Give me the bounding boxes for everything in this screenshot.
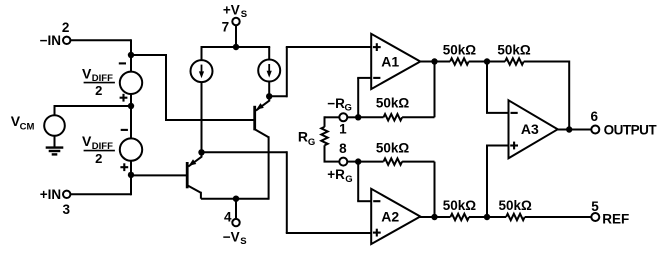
op-amp A1 <box>371 34 420 89</box>
svg-text:A2: A2 <box>381 208 399 224</box>
svg-text:A3: A3 <box>521 121 539 137</box>
wire -RG to RG resistor <box>325 116 340 127</box>
node A3 minus junction <box>484 58 490 64</box>
ground <box>46 136 64 155</box>
svg-text:G: G <box>345 174 352 185</box>
resistor 50k top first <box>435 58 488 64</box>
wire +RG to node <box>347 161 358 163</box>
wire A1 output <box>419 61 434 63</box>
wire +IN branch to Q2 base <box>131 174 187 176</box>
label 50k bottom first <box>443 198 477 213</box>
wire +IN to chain <box>70 193 131 195</box>
source VDIFF/2 upper <box>120 72 142 94</box>
source VCM <box>44 105 65 136</box>
node -RG <box>355 114 361 120</box>
wire A3 feedback <box>568 61 570 130</box>
svg-text:2: 2 <box>62 20 70 35</box>
label 50k top first <box>443 43 477 58</box>
label 50k A1 feedback <box>376 95 410 110</box>
wire I1 to Q2 emitter node <box>201 82 203 152</box>
svg-text:2: 2 <box>95 83 102 98</box>
node junction VCM <box>128 103 134 109</box>
node A3 output <box>566 126 572 132</box>
wire Q2 emitter to route <box>202 151 287 153</box>
svg-text:7: 7 <box>222 20 230 35</box>
wire junction to A3 minus <box>486 62 509 113</box>
svg-text:50kΩ: 50kΩ <box>376 140 410 155</box>
svg-text:2: 2 <box>95 151 102 166</box>
wire route to A1 plus <box>286 47 371 97</box>
terminal -RG pin 1 <box>327 96 352 136</box>
svg-text:G: G <box>345 103 352 114</box>
terminal -VS pin 4 <box>224 210 240 227</box>
wire to REF terminal <box>525 216 592 218</box>
svg-text:S: S <box>240 236 246 247</box>
svg-text:50kΩ: 50kΩ <box>499 198 533 213</box>
label VCM <box>11 113 35 133</box>
svg-text:−R: −R <box>327 96 345 111</box>
wire route to A2 plus <box>286 151 371 233</box>
resistor 50k top second <box>487 58 569 64</box>
wire feedback to A1 output <box>434 62 436 118</box>
svg-text:8: 8 <box>339 141 347 156</box>
label 50k top second <box>497 43 531 58</box>
svg-text:5: 5 <box>591 199 599 214</box>
wire -IN branch to Q1 base <box>131 54 255 120</box>
current source I1 <box>191 47 213 82</box>
node junction -IN branch <box>128 52 134 58</box>
resistor 50k A1 feedback <box>358 114 434 120</box>
transistor Q2 <box>187 152 202 198</box>
svg-text:A1: A1 <box>381 53 399 69</box>
node +VS rail junction <box>233 44 239 50</box>
source VDIFF/2 lower <box>120 138 142 160</box>
wire VCM to chain <box>54 105 132 107</box>
label RG <box>298 129 315 149</box>
label +VS <box>223 2 247 20</box>
svg-text:OUTPUT: OUTPUT <box>604 123 658 138</box>
plus sign upper source <box>120 94 128 102</box>
terminal OUTPUT pin 6 <box>590 109 657 138</box>
svg-text:+V: +V <box>223 2 240 17</box>
svg-text:3: 3 <box>63 202 71 217</box>
label 50k bottom second <box>499 198 533 213</box>
node -VS junction <box>233 196 239 202</box>
wire -IN to node chain <box>70 39 131 71</box>
label -VS <box>223 230 247 248</box>
wire feedback to A2 output <box>434 162 436 217</box>
svg-text:REF: REF <box>602 211 629 226</box>
wire node to A1 minus <box>357 78 371 117</box>
wire A2 output <box>419 216 434 218</box>
svg-text:50kΩ: 50kΩ <box>376 95 410 110</box>
minus sign upper source <box>119 62 126 64</box>
node Q2 emitter <box>198 149 204 155</box>
svg-text:1: 1 <box>339 121 347 136</box>
svg-text:6: 6 <box>590 109 598 124</box>
terminal +RG pin 8 <box>327 141 352 185</box>
svg-text:50kΩ: 50kΩ <box>497 43 531 58</box>
plus sign lower source <box>120 163 128 171</box>
node Q1 emitter <box>266 93 272 99</box>
transistor Q1 <box>255 96 270 199</box>
node junction +IN branch <box>128 172 134 178</box>
wire node to A2 minus <box>357 162 371 202</box>
wire collectors to -VS rail <box>201 198 269 200</box>
wire junction to A3 plus <box>486 146 509 218</box>
resistor 50k bottom first <box>435 214 488 220</box>
label VDIFF/2 upper <box>82 65 115 98</box>
svg-text:V: V <box>82 133 92 149</box>
svg-text:+IN: +IN <box>40 187 61 202</box>
minus sign lower source <box>121 129 128 131</box>
terminal -IN pin 2 <box>40 20 71 48</box>
svg-text:G: G <box>308 137 315 148</box>
resistor 50k bottom second <box>487 214 525 220</box>
current source I2 <box>258 47 280 82</box>
svg-text:−IN: −IN <box>40 33 61 48</box>
wire A3 output <box>557 129 592 131</box>
svg-text:V: V <box>82 65 92 81</box>
label 50k A2 feedback <box>376 140 410 155</box>
svg-text:50kΩ: 50kΩ <box>443 198 477 213</box>
resistor 50k A2 feedback <box>358 158 434 164</box>
wire to -VS terminal <box>235 199 237 219</box>
node +RG <box>355 158 361 164</box>
wire -RG to node <box>347 116 358 118</box>
wire I2 to Q1 emitter node <box>268 82 270 97</box>
terminal REF pin 5 <box>591 199 629 226</box>
op-amp A2 <box>371 189 420 244</box>
svg-text:CM: CM <box>20 121 35 132</box>
wire between sources <box>130 94 132 139</box>
svg-text:+R: +R <box>327 167 345 182</box>
terminal +IN pin 3 <box>40 187 71 217</box>
node A3 plus junction <box>484 214 490 220</box>
wire RG resistor to +RG <box>324 145 340 161</box>
label VDIFF/2 lower <box>82 133 115 166</box>
supply rail wire <box>201 46 271 48</box>
svg-text:R: R <box>298 129 308 145</box>
node A2 output <box>431 214 437 220</box>
terminal +VS pin 7 <box>222 18 240 35</box>
svg-text:S: S <box>241 9 247 20</box>
svg-text:4: 4 <box>224 210 232 225</box>
wire lower source to +IN <box>130 161 132 196</box>
resistor RG <box>321 127 327 146</box>
node A1 output <box>431 58 437 64</box>
op-amp A3 <box>509 100 558 158</box>
wire +VS to rail <box>235 25 237 47</box>
svg-text:50kΩ: 50kΩ <box>443 43 477 58</box>
wire Q1 emitter to route <box>269 95 287 97</box>
svg-text:−V: −V <box>223 230 240 245</box>
